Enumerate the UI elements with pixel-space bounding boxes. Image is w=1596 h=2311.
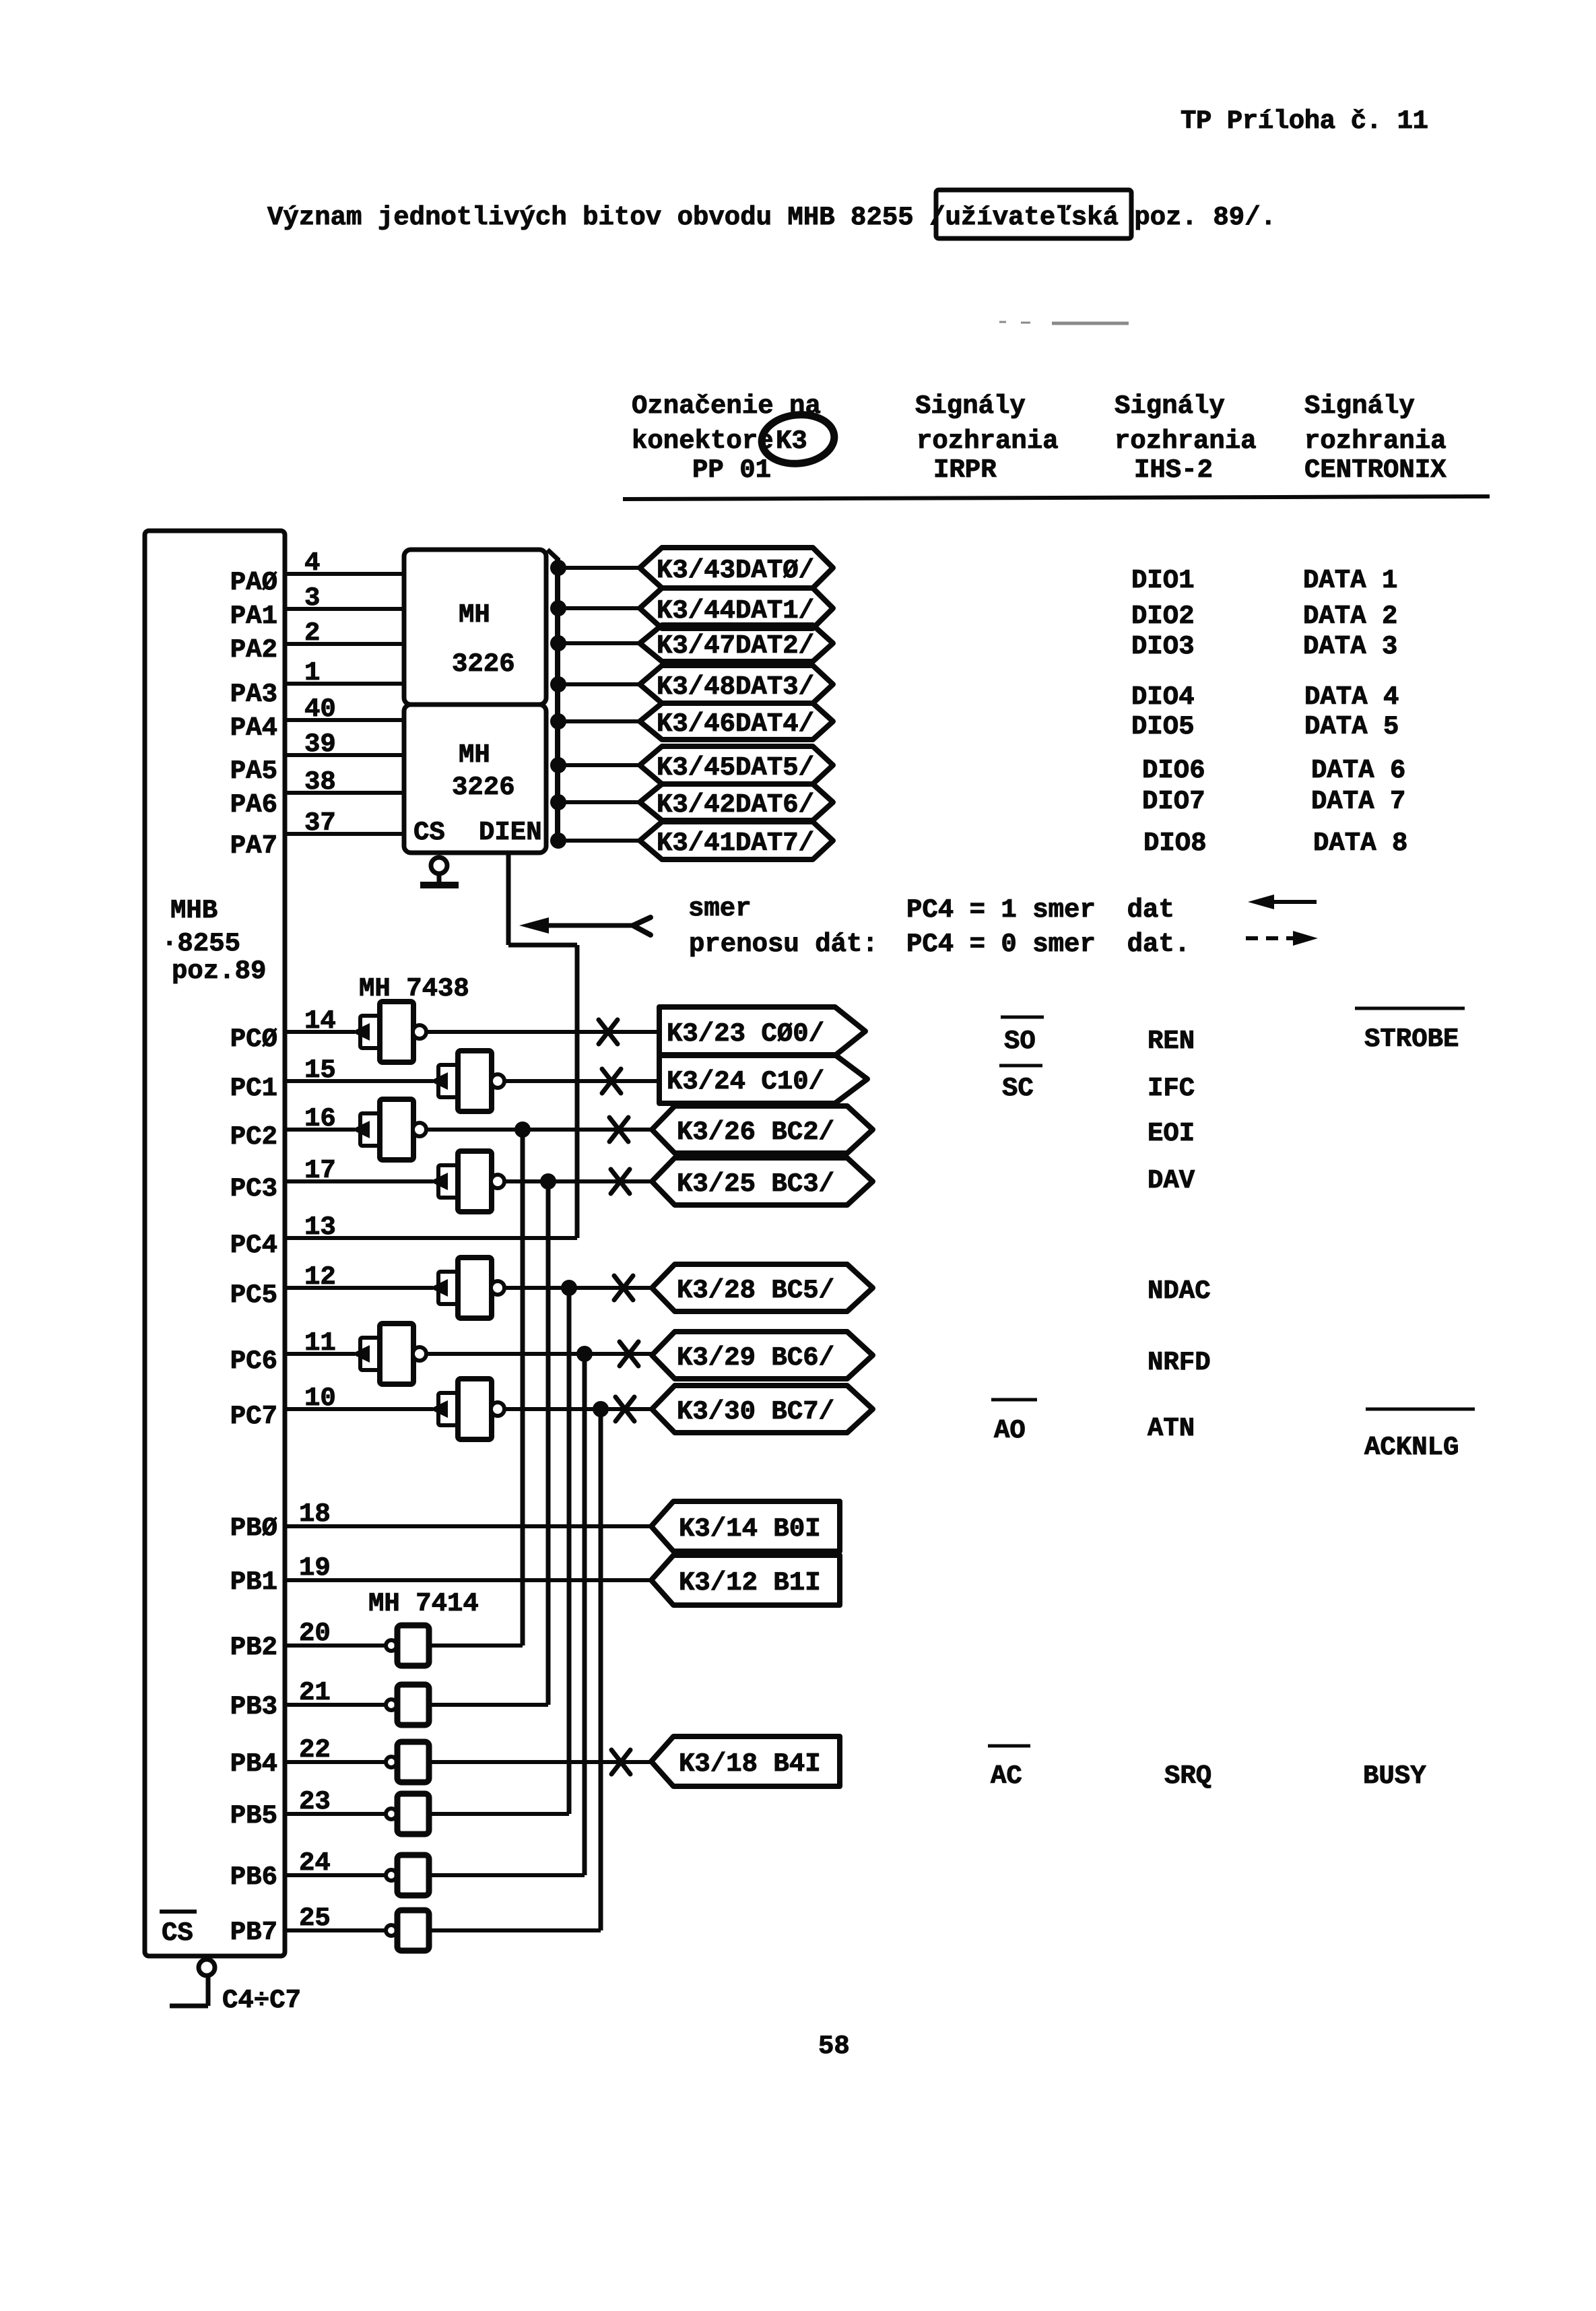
wire gate U4C to flag K3/26 — [426, 1128, 655, 1132]
svg-text:PB7: PB7 — [230, 1918, 277, 1947]
buffer U2 MH 3226 body — [404, 550, 546, 705]
svg-text:DIO7: DIO7 — [1142, 787, 1205, 816]
wire U3 DIEN down — [506, 853, 511, 945]
svg-text:K3/12 B1I: K3/12 B1I — [679, 1568, 821, 1598]
cross mark on BC6 wire — [620, 1342, 638, 1366]
inverter gate U5B (MH7438) on PC6 — [352, 1345, 370, 1363]
svg-text:K3/43DATØ/: K3/43DATØ/ — [657, 556, 814, 585]
wire bus to flag DAT2 — [558, 641, 643, 645]
svg-text:K3/28 BC5/: K3/28 BC5/ — [677, 1276, 834, 1305]
svg-text:DATA 8: DATA 8 — [1313, 828, 1407, 858]
svg-text:poz.89: poz.89 — [172, 956, 266, 986]
flag K3/23 CØ0/ — [659, 1007, 865, 1055]
wire gate PB6 to vertical net — [429, 1873, 585, 1877]
wire DIEN vertical to PC4 — [575, 945, 580, 1238]
svg-text:PC6: PC6 — [230, 1346, 277, 1376]
svg-text:SO: SO — [1004, 1027, 1036, 1056]
svg-text:CS: CS — [413, 818, 445, 847]
svg-text:DATA 1: DATA 1 — [1303, 566, 1397, 595]
flag K3/44DAT1/ — [640, 588, 833, 628]
svg-text:K3/25 BC3/: K3/25 BC3/ — [677, 1169, 834, 1199]
svg-text:K3/29 BC6/: K3/29 BC6/ — [677, 1343, 834, 1373]
svg-text:BUSY: BUSY — [1363, 1761, 1426, 1791]
inverter gate U5A (MH7438) on PC5 — [430, 1279, 448, 1297]
flag K3/18 B4I — [651, 1736, 840, 1786]
svg-text:DIO5: DIO5 — [1131, 712, 1195, 742]
U2/U3 CS pin bubble — [431, 857, 447, 874]
svg-text:PA7: PA7 — [230, 831, 277, 861]
svg-text:PB6: PB6 — [230, 1862, 277, 1892]
svg-text:3226: 3226 — [452, 649, 515, 679]
svg-text:IRPR: IRPR — [933, 455, 997, 485]
wire PB2 to gate — [285, 1643, 385, 1648]
flag K3/45DAT5/ — [640, 746, 833, 784]
junction PC5/PB5 net — [561, 1280, 577, 1296]
svg-text:PP 01: PP 01 — [692, 455, 771, 485]
svg-text:DATA 3: DATA 3 — [1303, 632, 1397, 661]
wire bus to flag DAT4 — [558, 719, 643, 723]
svg-text:DATA 5: DATA 5 — [1304, 712, 1399, 742]
svg-text:K3/23 CØ0/: K3/23 CØ0/ — [667, 1019, 824, 1049]
svg-text:SC: SC — [1002, 1074, 1034, 1103]
svg-text:PB3: PB3 — [230, 1692, 277, 1722]
svg-text:DIO3: DIO3 — [1131, 632, 1195, 661]
svg-text:DATA 6: DATA 6 — [1311, 756, 1405, 785]
flag K3/12 B1I — [651, 1555, 840, 1605]
junction PC6/PB6 net — [576, 1346, 593, 1362]
svg-text:MH 7438: MH 7438 — [359, 974, 469, 1004]
wire PA5 to MH3226 — [285, 753, 404, 757]
svg-text:smer: smer — [688, 894, 752, 923]
junction on bus for DAT4 — [550, 713, 566, 729]
svg-text:PBØ: PBØ — [230, 1513, 277, 1543]
svg-text:rozhrania: rozhrania — [1304, 426, 1447, 456]
svg-text:konektore: konektore — [632, 426, 774, 456]
svg-text:Signály: Signály — [1304, 391, 1415, 421]
wire gate U4D to flag K3/25 — [504, 1179, 655, 1183]
svg-text:DIO6: DIO6 — [1142, 756, 1205, 785]
flag K3/48DAT3/ — [640, 665, 833, 703]
junction PC2/PB2 net — [514, 1121, 531, 1138]
buffer U3 MH 3226 body — [404, 705, 546, 853]
wire PA1 to MH3226 — [285, 607, 404, 611]
inverter gate (MH7414) on PB4 — [386, 1757, 397, 1767]
svg-text:SRQ: SRQ — [1164, 1761, 1211, 1791]
svg-text:REN: REN — [1148, 1027, 1195, 1056]
junction PC7/PB7 net — [593, 1401, 609, 1417]
svg-text:PC4: PC4 — [230, 1231, 277, 1260]
arrow left (PC4=1) — [1248, 894, 1274, 909]
wire bus to flag DAT0 — [558, 566, 643, 570]
svg-text:NRFD: NRFD — [1148, 1348, 1211, 1377]
svg-text:CS: CS — [162, 1918, 193, 1948]
junction on bus for DAT0 — [550, 560, 566, 576]
wire PB1 to flag K3/12 — [285, 1578, 655, 1582]
svg-text:K3/30 BC7/: K3/30 BC7/ — [677, 1397, 834, 1427]
svg-text:rozhrania: rozhrania — [917, 426, 1059, 456]
cross mark on BC3 wire — [611, 1169, 630, 1194]
wire gate U4A to flag K3/23 — [426, 1030, 659, 1034]
svg-text:PA1: PA1 — [230, 601, 277, 631]
inverter gate U5C (MH7438) on PC7 — [430, 1400, 448, 1418]
wire PB3 to gate — [285, 1703, 385, 1707]
wire PB4 to gate — [285, 1760, 385, 1764]
wire bus to flag DAT6 — [558, 800, 643, 804]
svg-text:rozhrania: rozhrania — [1115, 426, 1257, 456]
svg-text:MH: MH — [459, 740, 490, 770]
svg-text:PB4: PB4 — [230, 1749, 277, 1779]
flag K3/47DAT2/ — [640, 625, 833, 661]
wire PA2 to MH3226 — [285, 642, 404, 646]
flag K3/24 C10/ — [659, 1055, 867, 1103]
direction arrow to DIEN line — [519, 917, 549, 934]
junction on bus for DAT3 — [550, 676, 566, 692]
inverter gate (MH7414) on PB5 — [386, 1809, 397, 1819]
svg-text:MH 7414: MH 7414 — [368, 1589, 479, 1619]
junction on bus for DAT1 — [550, 600, 566, 616]
flag K3/43DATØ/ — [640, 548, 833, 588]
wire PC0 to gate — [285, 1030, 355, 1034]
net PC7-PB7 vertical — [599, 1409, 603, 1930]
short mark under title — [999, 322, 1129, 323]
junction on bus for DAT6 — [550, 794, 566, 810]
svg-text:K3/26 BC2/: K3/26 BC2/ — [677, 1117, 834, 1147]
wire CS elbow to C4-C7 — [170, 2004, 208, 2009]
svg-text:PB1: PB1 — [230, 1567, 277, 1597]
svg-text:DIO2: DIO2 — [1131, 601, 1195, 631]
svg-text:PC3: PC3 — [230, 1174, 277, 1204]
svg-text:K3/48DAT3/: K3/48DAT3/ — [657, 672, 814, 702]
wire PA3 to MH3226 — [285, 682, 404, 686]
inverter gate (MH7414) on PB6 — [386, 1870, 397, 1881]
svg-text:PB2: PB2 — [230, 1633, 277, 1662]
svg-text:PC4 = 0 smer dat.: PC4 = 0 smer dat. — [906, 930, 1190, 959]
net PC6-PB6 vertical — [583, 1354, 587, 1875]
svg-text:DIO8: DIO8 — [1143, 828, 1207, 858]
net PC2-PB2 vertical — [521, 1130, 525, 1646]
svg-text:AO: AO — [994, 1416, 1026, 1445]
wire PC3 to gate — [285, 1179, 433, 1183]
svg-text:DATA 7: DATA 7 — [1311, 787, 1405, 816]
wire PC1 to gate — [285, 1079, 433, 1083]
wire gate PB7 to vertical net — [429, 1928, 601, 1932]
svg-text:PCØ: PCØ — [230, 1024, 277, 1054]
svg-text:PC7: PC7 — [230, 1402, 277, 1431]
svg-text:MHB: MHB — [170, 896, 218, 925]
bus line at MH3226 outputs — [555, 558, 560, 840]
wire PB0 to flag K3/14 — [285, 1524, 655, 1528]
svg-text:DIEN: DIEN — [479, 818, 542, 847]
svg-text:PC4 = 1 smer dat: PC4 = 1 smer dat — [906, 895, 1174, 925]
flag K3/42DAT6/ — [640, 784, 833, 820]
svg-text:PC2: PC2 — [230, 1122, 277, 1152]
inverter gate U4D (MH7438) on PC3 — [430, 1173, 448, 1190]
wire PB7 to gate — [285, 1928, 385, 1932]
inverter gate (MH7414) on PB2 — [386, 1640, 397, 1651]
wire bus to flag DAT3 — [558, 682, 643, 686]
wire gate PB5 to vertical net — [429, 1812, 569, 1816]
svg-text:EOI: EOI — [1148, 1119, 1195, 1148]
inverter gate U4C (MH7438) on PC2 — [352, 1121, 370, 1138]
wire PC2 to gate — [285, 1128, 355, 1132]
svg-text:PA4: PA4 — [230, 713, 277, 743]
wire PB5 to gate — [285, 1812, 385, 1816]
wire PB6 to gate — [285, 1873, 385, 1877]
wire DIEN elbow — [508, 943, 577, 948]
cross mark on BC2 wire — [609, 1117, 628, 1142]
arrow right dashed (PC4=0) — [1246, 936, 1294, 940]
svg-text:·8255: ·8255 — [162, 929, 240, 958]
svg-text:PA6: PA6 — [230, 790, 277, 820]
svg-text:Význam jednotlivých bitov obvo: Význam jednotlivých bitov obvodu MHB 825… — [267, 203, 1276, 232]
flag K3/25 BC3/ — [652, 1158, 873, 1205]
wire PC7 to gate — [285, 1407, 433, 1411]
wire PA7 to MH3226 — [285, 832, 404, 836]
flag K3/30 BC7/ — [652, 1386, 873, 1433]
cross mark on B4I wire — [611, 1750, 630, 1774]
svg-text:K3/41DAT7/: K3/41DAT7/ — [657, 828, 814, 858]
wire PC4 to DIEN net — [285, 1236, 577, 1240]
wire gate PB3 to vertical net — [429, 1703, 548, 1707]
flag K3/14 B0I — [651, 1501, 840, 1551]
wire PA4 to MH3226 — [285, 718, 404, 722]
box around 'užívateľská' — [936, 190, 1131, 238]
svg-text:STROBE: STROBE — [1364, 1024, 1459, 1054]
svg-text:DATA 2: DATA 2 — [1303, 601, 1397, 631]
hand-drawn ellipse around K3 — [760, 412, 837, 467]
svg-text:K3: K3 — [776, 426, 807, 456]
svg-text:K3/47DAT2/: K3/47DAT2/ — [657, 631, 814, 661]
wire gate U5B to flag K3/29 — [426, 1352, 655, 1356]
wire gate U5A to flag K3/28 — [504, 1286, 655, 1290]
flag K3/41DAT7/ — [640, 822, 833, 859]
svg-text:NDAC: NDAC — [1148, 1276, 1211, 1306]
svg-text:PAØ: PAØ — [230, 568, 277, 597]
table header rule — [623, 496, 1490, 499]
svg-text:K3/45DAT5/: K3/45DAT5/ — [657, 753, 814, 783]
svg-text:C4÷C7: C4÷C7 — [222, 1986, 301, 2015]
svg-text:K3/14 B0I: K3/14 B0I — [679, 1514, 821, 1544]
flag K3/46DAT4/ — [640, 703, 833, 740]
svg-text:PC5: PC5 — [230, 1280, 277, 1310]
junction on bus for DAT7 — [550, 833, 566, 849]
svg-text:DATA 4: DATA 4 — [1304, 682, 1399, 712]
svg-text:PA2: PA2 — [230, 635, 277, 665]
svg-text:K3/46DAT4/: K3/46DAT4/ — [657, 709, 814, 739]
svg-text:PC1: PC1 — [230, 1074, 277, 1103]
IC U1 MHB 8255 poz.89 body — [145, 531, 285, 1956]
svg-text:DIO1: DIO1 — [1131, 566, 1195, 595]
cross mark on BC7 wire — [616, 1397, 634, 1421]
U1 CS pin bubble — [199, 1959, 215, 1976]
svg-text:Signály: Signály — [1115, 391, 1225, 421]
flag K3/28 BC5/ — [652, 1264, 873, 1311]
ground at U2/U3 CS — [437, 874, 442, 884]
svg-text:3226: 3226 — [452, 773, 515, 802]
svg-text:ATN: ATN — [1148, 1414, 1195, 1443]
svg-text:58: 58 — [818, 2031, 850, 2061]
svg-text:DIO4: DIO4 — [1131, 682, 1195, 712]
junction on bus for DAT5 — [550, 757, 566, 773]
wire PA6 to MH3226 — [285, 791, 404, 795]
svg-text:K3/44DAT1/: K3/44DAT1/ — [657, 596, 814, 626]
net PC5-PB5 vertical — [567, 1288, 572, 1814]
svg-text:K3/18 B4I: K3/18 B4I — [679, 1749, 821, 1779]
inverter gate (MH7414) on PB7 — [386, 1925, 397, 1936]
wire gate PB2 to vertical net — [429, 1643, 523, 1648]
svg-text:TP Príloha č. 11: TP Príloha č. 11 — [1181, 106, 1428, 136]
wire bus to flag DAT1 — [558, 606, 643, 610]
svg-text:PA5: PA5 — [230, 756, 277, 786]
wire bus to flag DAT7 — [558, 839, 643, 843]
inverter gate U4A (MH7438) on PC0 — [352, 1023, 370, 1041]
inverter gate U4B (MH7438) on PC1 — [430, 1072, 448, 1090]
wire PC6 to gate — [285, 1352, 355, 1356]
net PC3-PB3 vertical — [546, 1181, 551, 1705]
junction on bus for DAT2 — [550, 635, 566, 651]
wire PC5 to gate — [285, 1286, 433, 1290]
svg-text:MH: MH — [459, 600, 490, 630]
flag K3/26 BC2/ — [652, 1106, 873, 1153]
svg-text:IFC: IFC — [1148, 1074, 1195, 1103]
inverter gate (MH7414) on PB3 — [386, 1699, 397, 1710]
svg-text:PA3: PA3 — [230, 680, 277, 709]
svg-text:K3/42DAT6/: K3/42DAT6/ — [657, 790, 814, 820]
flag K3/29 BC6/ — [652, 1332, 873, 1379]
cross mark on C10 wire — [602, 1069, 621, 1093]
svg-text:prenosu dát:: prenosu dát: — [689, 930, 878, 959]
svg-text:ACKNLG: ACKNLG — [1364, 1433, 1459, 1462]
svg-text:K3/24 C10/: K3/24 C10/ — [667, 1067, 824, 1097]
wire gate U4B to flag K3/24 — [504, 1079, 659, 1083]
wire gate U5C to flag K3/30 — [504, 1407, 655, 1411]
svg-text:IHS-2: IHS-2 — [1134, 455, 1213, 485]
wire PA0 to MH3226 — [285, 572, 404, 576]
cross mark on BC5 wire — [614, 1276, 633, 1300]
svg-text:PB5: PB5 — [230, 1801, 277, 1831]
svg-text:CENTRONIX: CENTRONIX — [1304, 455, 1447, 485]
svg-text:Signály: Signály — [915, 391, 1026, 421]
wire bus to flag DAT5 — [558, 763, 643, 767]
wire gate PB4 to flag K3/18 — [429, 1760, 655, 1764]
cross mark on C00 wire — [599, 1020, 618, 1044]
svg-text:DAV: DAV — [1148, 1166, 1195, 1196]
junction PC3/PB3 net — [540, 1173, 556, 1190]
svg-text:AC: AC — [991, 1761, 1022, 1791]
